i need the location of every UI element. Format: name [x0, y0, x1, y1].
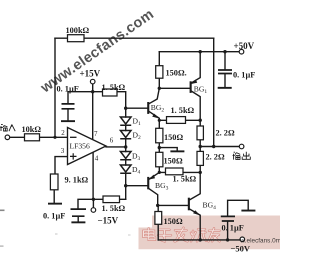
wire cap TR	[224, 52, 226, 87]
svg-text:+50V: +50V	[234, 41, 255, 51]
BG1 collector vertical	[191, 52, 200, 83]
wire opamp output	[106, 146, 126, 148]
svg-text:150Ω: 150Ω	[164, 157, 183, 166]
ground (9.1k)	[48, 203, 62, 205]
diode D3	[120, 152, 131, 160]
node dots	[53, 50, 229, 242]
wire BG4 base	[158, 204, 188, 206]
ground (mid tap)	[170, 150, 184, 152]
BG3 emitter	[149, 172, 159, 179]
wire pin7 to +15V	[92, 84, 94, 139]
svg-text:1. 5kΩ: 1. 5kΩ	[171, 106, 195, 115]
svg-text:150Ω: 150Ω	[164, 133, 183, 142]
transistor BG4 emitter arrow	[193, 210, 200, 215]
wire 150#2	[158, 148, 160, 173]
label shuru (input)	[0, 125, 15, 132]
svg-text:−50V: −50V	[231, 244, 251, 254]
wire to 150#1	[158, 120, 160, 147]
BG4 collector	[190, 172, 201, 200]
terminal +15V	[90, 79, 95, 84]
wire pin4 down	[92, 152, 94, 207]
capacitor C 0.1uF (+15V)	[62, 70, 236, 221]
BG2 emitter	[149, 112, 159, 121]
transistor BG1 emitter arrow (PNP)	[191, 79, 197, 84]
wire BG2 base	[126, 107, 148, 109]
transistor BG4 base bar	[188, 198, 190, 211]
ground (cap -15V)	[71, 221, 85, 223]
resistor 10k	[25, 134, 40, 141]
transistor BG1 base bar	[190, 81, 192, 93]
wire 2.2#2	[199, 147, 201, 173]
wire BG1 base	[159, 87, 189, 89]
terminal +50V	[239, 49, 244, 54]
resistor 150 #1	[156, 128, 163, 143]
wire diode chain segments	[125, 125, 127, 199]
wire chain bottom to -15V row	[78, 199, 126, 208]
transistor BG3 base bar	[147, 177, 149, 189]
BG4 emitter	[190, 209, 201, 240]
terminal -15V	[91, 208, 96, 213]
wire 150 top	[158, 52, 160, 89]
svg-text:LF356: LF356	[70, 142, 90, 151]
svg-text:w.elecfans.0m: w.elecfans.0m	[240, 238, 281, 245]
svg-text:0. 1µF: 0. 1µF	[222, 223, 244, 232]
resistor 1.5k BG2	[167, 117, 186, 124]
svg-text:1. 5kΩ: 1. 5kΩ	[102, 204, 126, 213]
svg-text:3: 3	[61, 147, 65, 155]
wire 9.1k to ground	[53, 190, 55, 203]
wire node to 1.5k#2	[159, 171, 200, 173]
resistor 2.2 #1	[197, 126, 203, 140]
wire feedback top	[55, 37, 214, 39]
svg-text:100kΩ: 100kΩ	[66, 26, 90, 35]
wire BG2 emitter to 1.5k	[159, 119, 200, 121]
wire +15V node right	[93, 92, 126, 117]
capacitor C 0.1uF (-50V)	[221, 216, 235, 221]
op-amp U LF356	[68, 128, 107, 165]
wire 2.2#1	[199, 120, 201, 146]
wire input to pin2	[10, 136, 68, 138]
resistor R 100k	[25, 35, 204, 225]
wire left vertical	[54, 38, 56, 137]
svg-text:6: 6	[110, 136, 114, 144]
resistor 1.5k (+15V)	[103, 89, 118, 96]
watermark band	[139, 216, 281, 250]
transistor BG2 emitter arrow	[152, 114, 159, 119]
resistor 150 bottom	[155, 212, 162, 225]
wire BG3 base	[126, 185, 148, 187]
wire feedback right vertical	[213, 38, 215, 146]
resistor 1.5k (-15V)	[103, 196, 120, 203]
svg-text:150Ω: 150Ω	[164, 217, 183, 226]
resistor 9.1k	[50, 174, 58, 190]
wire cap BL to ground	[77, 217, 79, 221]
resistor 150 top	[156, 66, 163, 79]
terminal output	[239, 144, 244, 149]
BG3 collector	[149, 189, 158, 206]
capacitor C 0.1uF (-15V)	[71, 209, 87, 216]
wire mid ground tap	[159, 148, 177, 151]
svg-text:2: 2	[61, 129, 65, 137]
svg-text:2. 2Ω: 2. 2Ω	[206, 152, 225, 161]
BG2 collector	[149, 88, 159, 103]
wire pin3	[55, 157, 68, 174]
svg-text:−15V: −15V	[98, 216, 119, 226]
diode D4	[120, 165, 131, 173]
wire +15V node left to cap	[68, 92, 93, 104]
capacitor C 0.1uF (+50V)	[218, 70, 232, 74]
svg-text:0. 1µF: 0. 1µF	[43, 211, 65, 220]
svg-text:2. 2Ω: 2. 2Ω	[216, 128, 235, 137]
BG1 emitter	[191, 91, 200, 120]
ground (cap +15V)	[61, 120, 75, 122]
transistor BG3 emitter arrow (PNP)	[149, 175, 155, 180]
label shuchu (output)	[233, 152, 251, 160]
rail +50V	[159, 51, 239, 53]
wire 150 bottom	[157, 205, 159, 240]
resistor 1.5k BG3	[166, 168, 184, 175]
svg-text:1. 5kΩ: 1. 5kΩ	[173, 175, 197, 184]
svg-text:7: 7	[94, 130, 98, 138]
terminal -50V	[240, 237, 245, 242]
diode D1	[120, 117, 131, 173]
svg-text:0. 1µF: 0. 1µF	[233, 70, 255, 79]
resistor 150 #2	[156, 152, 163, 167]
ground (cap +50V)	[218, 87, 232, 89]
svg-text:150Ω.: 150Ω.	[166, 69, 187, 78]
wire output	[200, 146, 239, 148]
rail -50V	[158, 239, 240, 241]
svg-text:9. 1kΩ: 9. 1kΩ	[65, 176, 89, 185]
resistor 2.2 #2	[197, 151, 203, 165]
svg-text:10kΩ: 10kΩ	[22, 125, 42, 134]
wire cap BR	[228, 200, 249, 240]
svg-text:1. 5kΩ: 1. 5kΩ	[102, 83, 126, 92]
svg-text:4: 4	[95, 155, 99, 163]
wire cap to ground	[67, 110, 69, 120]
transistor Q BG2 base bar	[147, 79, 200, 215]
terminal input	[5, 49, 245, 241]
diode D2	[120, 131, 131, 139]
ground (cap -50V)	[241, 210, 255, 212]
